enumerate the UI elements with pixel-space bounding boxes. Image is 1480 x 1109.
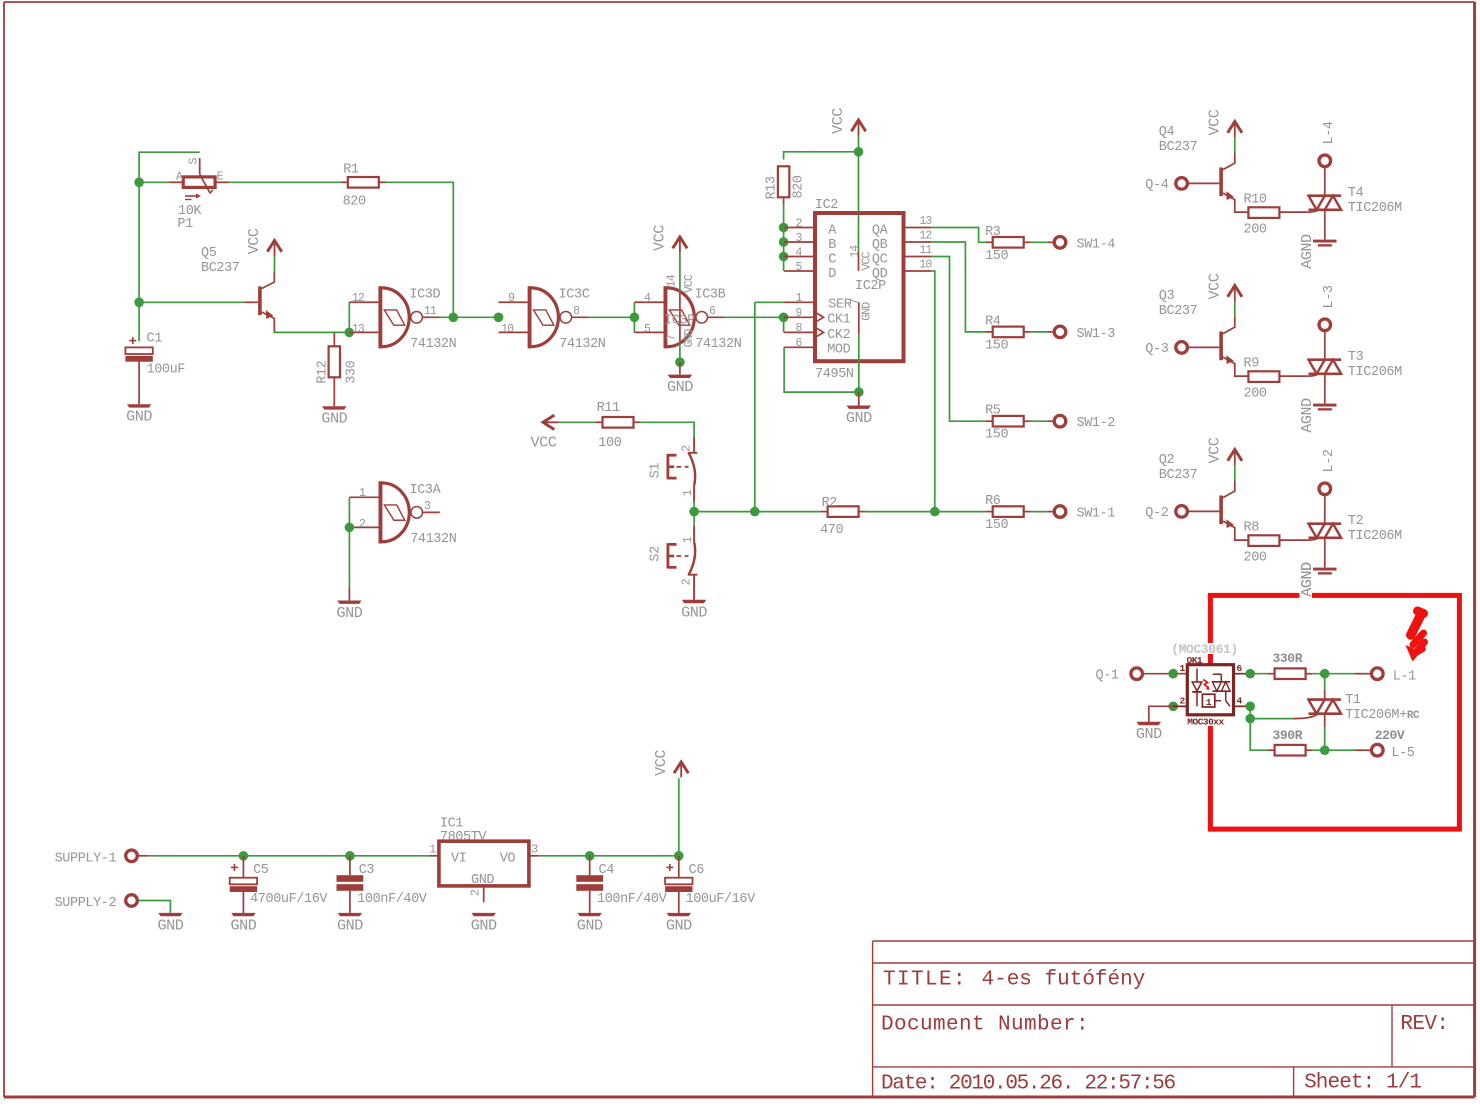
svg-text:A: A xyxy=(828,223,837,238)
svg-text:T1: T1 xyxy=(1345,693,1361,708)
junction xyxy=(1168,669,1178,679)
wire xyxy=(1234,301,1236,316)
connector Q-1 xyxy=(1131,668,1143,680)
svg-text:Q-1: Q-1 xyxy=(1096,669,1119,684)
svg-text:VCC: VCC xyxy=(652,750,670,776)
ground GND xyxy=(337,601,361,604)
connector SW1-3 xyxy=(1054,326,1066,338)
wire IC3P power xyxy=(679,253,681,293)
wire QB to R4 xyxy=(931,242,985,332)
svg-text:GND: GND xyxy=(666,916,692,934)
resistor R12 330 xyxy=(333,332,335,346)
junction xyxy=(345,328,355,338)
ground GND xyxy=(158,913,182,916)
svg-text:7805TV: 7805TV xyxy=(440,830,488,845)
svg-text:R1: R1 xyxy=(343,163,359,178)
svg-text:74132N: 74132N xyxy=(695,337,742,352)
svg-text:GND: GND xyxy=(157,916,183,934)
svg-text:S2: S2 xyxy=(648,546,663,562)
svg-text:3: 3 xyxy=(424,500,431,513)
svg-text:R10: R10 xyxy=(1244,193,1267,208)
wire R13 to A B C D pins xyxy=(783,204,785,271)
power VCC arrow for Q4 xyxy=(1228,122,1242,133)
power VCC arrow supply xyxy=(674,762,688,773)
svg-text:R5: R5 xyxy=(985,404,1001,419)
svg-text:IC3C: IC3C xyxy=(559,288,590,303)
junction xyxy=(345,523,355,533)
svg-text:R11: R11 xyxy=(597,401,620,416)
svg-text:2: 2 xyxy=(681,578,694,585)
resistor R9 200 xyxy=(1248,371,1279,382)
svg-text:GND: GND xyxy=(471,873,494,888)
svg-text:4: 4 xyxy=(1237,696,1243,707)
svg-text:1: 1 xyxy=(359,487,366,500)
ground GND xyxy=(682,600,706,603)
capacitor C4 100nF/40V xyxy=(576,875,603,882)
connector SW1-2 xyxy=(1054,415,1066,427)
svg-text:AGND: AGND xyxy=(1298,562,1316,597)
wire R11 to S1 xyxy=(641,422,694,437)
power VCC arrow for IC2 xyxy=(851,120,865,131)
wire xyxy=(139,181,169,183)
svg-text:74132N: 74132N xyxy=(410,337,457,352)
svg-text:GND: GND xyxy=(683,328,696,347)
capacitor C1 100uF xyxy=(132,337,134,344)
svg-text:200: 200 xyxy=(1244,551,1267,566)
resistor R8 200 xyxy=(1248,535,1279,546)
wire QA to R3 xyxy=(931,228,985,243)
svg-text:GND: GND xyxy=(861,302,874,321)
junction xyxy=(779,313,789,323)
svg-text:2: 2 xyxy=(681,445,694,452)
triac T4 TIC206M xyxy=(1309,194,1342,197)
wire xyxy=(1031,511,1047,513)
svg-text:VCC: VCC xyxy=(861,251,874,270)
svg-text:9: 9 xyxy=(508,292,515,305)
wire S1/S2 node to R2 and R6 xyxy=(694,511,820,513)
svg-text:BC237: BC237 xyxy=(1159,140,1198,155)
ground GND xyxy=(127,404,151,407)
svg-text:L-1: L-1 xyxy=(1393,670,1416,685)
svg-text:GND: GND xyxy=(681,603,707,621)
resistor R4 150 xyxy=(986,331,993,333)
svg-text:VCC: VCC xyxy=(1205,437,1223,463)
svg-text:GND: GND xyxy=(577,916,603,934)
highlight box xyxy=(1210,595,1459,829)
connector SW1-4 xyxy=(1054,237,1066,249)
triac T1 TIC206M xyxy=(1308,698,1341,701)
connector Q-4 xyxy=(1176,178,1188,190)
junction xyxy=(630,313,640,323)
svg-text:T3: T3 xyxy=(1348,350,1364,365)
svg-text:L-2: L-2 xyxy=(1322,449,1337,472)
svg-text:C6: C6 xyxy=(689,863,705,878)
svg-text:Document Number:: Document Number: xyxy=(881,1014,1089,1037)
transistor Q3 BC237 xyxy=(1219,332,1223,361)
svg-text:200: 200 xyxy=(1244,223,1267,238)
svg-text:820: 820 xyxy=(792,175,807,198)
transistor Q2 BC237 xyxy=(1219,496,1223,525)
svg-text:6: 6 xyxy=(795,337,802,350)
resistor R6 150 xyxy=(986,511,993,513)
svg-text:5: 5 xyxy=(795,261,802,274)
wire 390R to L-5 xyxy=(1313,749,1355,751)
lightning symbol xyxy=(1411,611,1425,653)
svg-text:74132N: 74132N xyxy=(559,337,606,352)
analog ground AGND xyxy=(1313,568,1336,571)
svg-text:1: 1 xyxy=(682,536,695,543)
wire xyxy=(274,256,276,271)
wire IC3B out to IC2 clock xyxy=(725,316,784,318)
svg-text:TIC206M: TIC206M xyxy=(1348,201,1402,216)
svg-text:6: 6 xyxy=(1237,663,1243,674)
svg-text:L-4: L-4 xyxy=(1322,121,1337,144)
resistor 390R xyxy=(1267,749,1274,751)
svg-text:S1: S1 xyxy=(648,463,663,479)
connector SUPPLY-2 xyxy=(126,895,138,907)
voltage regulator IC1 7805TV xyxy=(429,855,439,857)
optocoupler OK1 MOC3061 xyxy=(1172,643,1241,654)
transistor Q5 BC237 xyxy=(244,301,258,303)
wire xyxy=(559,421,596,423)
svg-text:L-5: L-5 xyxy=(1391,746,1414,761)
svg-text:4: 4 xyxy=(644,292,651,305)
svg-text:74132N: 74132N xyxy=(410,532,457,547)
svg-text:13: 13 xyxy=(919,215,932,228)
svg-text:4: 4 xyxy=(795,246,802,259)
svg-text:IC2P: IC2P xyxy=(855,279,886,294)
svg-text:7: 7 xyxy=(666,335,679,341)
wire IC3A inputs to ground xyxy=(348,497,350,527)
wire xyxy=(693,501,695,511)
junction xyxy=(1245,714,1255,724)
junction xyxy=(750,507,760,517)
svg-text:C5: C5 xyxy=(253,863,269,878)
svg-text:9: 9 xyxy=(795,307,802,320)
wire QD down to R6 node xyxy=(931,271,935,512)
resistor R5 150 xyxy=(986,420,993,422)
wire Q-1 to OK1 xyxy=(1143,673,1187,675)
capacitor C3 100nF/40V xyxy=(337,875,364,882)
connector L-1 xyxy=(1372,668,1384,680)
svg-text:B: B xyxy=(828,238,836,253)
wire QC to R5 xyxy=(931,257,985,422)
svg-text:1: 1 xyxy=(1206,697,1212,708)
svg-text:Q3: Q3 xyxy=(1159,289,1175,304)
svg-text:TIC206M+RC: TIC206M+RC xyxy=(1345,708,1420,723)
svg-text:11: 11 xyxy=(424,305,437,318)
svg-text:1: 1 xyxy=(795,292,802,305)
svg-text:R13: R13 xyxy=(765,176,780,199)
triac T2 TIC206M xyxy=(1309,522,1342,525)
ground GND xyxy=(472,913,496,916)
svg-text:2: 2 xyxy=(1180,696,1186,707)
svg-text:2: 2 xyxy=(359,518,366,531)
svg-text:S: S xyxy=(188,158,201,165)
svg-text:(MOC3061): (MOC3061) xyxy=(1171,642,1238,657)
svg-text:Q-4: Q-4 xyxy=(1145,178,1168,193)
resistor 330R xyxy=(1267,673,1274,675)
svg-text:R4: R4 xyxy=(985,314,1001,329)
svg-text:150: 150 xyxy=(985,428,1008,443)
svg-text:GND: GND xyxy=(846,409,872,427)
svg-text:VO: VO xyxy=(500,851,516,866)
svg-text:R2: R2 xyxy=(822,496,838,511)
svg-text:IC3B: IC3B xyxy=(695,288,726,303)
svg-text:Date: 2010.05.26. 22:57:56: Date: 2010.05.26. 22:57:56 xyxy=(881,1072,1176,1095)
wire xyxy=(1234,465,1236,480)
svg-text:330: 330 xyxy=(344,360,359,383)
svg-text:6: 6 xyxy=(709,305,716,318)
svg-text:VI: VI xyxy=(451,851,466,866)
svg-text:VCC: VCC xyxy=(531,434,557,452)
capacitor C6 100uF/16V xyxy=(669,864,671,871)
svg-text:3: 3 xyxy=(795,232,802,245)
svg-text:VCC: VCC xyxy=(245,228,263,254)
svg-text:L-3: L-3 xyxy=(1322,285,1337,308)
junction xyxy=(134,178,144,188)
switch S2 xyxy=(693,512,695,526)
transistor Q4 BC237 xyxy=(1219,168,1223,197)
svg-text:IC2: IC2 xyxy=(815,198,838,213)
svg-text:CK1: CK1 xyxy=(827,313,850,328)
wire SUPPLY-2 to GND xyxy=(138,901,170,913)
wire supply rail xyxy=(137,855,148,857)
svg-text:330R: 330R xyxy=(1273,651,1303,666)
IC2 power pin 7 GND xyxy=(858,302,860,334)
svg-text:VCC: VCC xyxy=(683,274,696,293)
svg-text:T2: T2 xyxy=(1348,514,1364,529)
wire xyxy=(1031,241,1047,243)
switch S1 xyxy=(693,437,695,453)
IC2 power pin 14 VCC xyxy=(858,253,860,271)
svg-text:100: 100 xyxy=(598,436,621,451)
shift register IC2 7495N xyxy=(815,213,904,361)
junction xyxy=(854,147,864,157)
svg-text:MOC30xx: MOC30xx xyxy=(1187,717,1224,728)
junction xyxy=(689,507,699,517)
svg-text:R6: R6 xyxy=(985,494,1001,509)
svg-text:TITLE:: TITLE: xyxy=(883,969,967,992)
svg-text:TIC206M: TIC206M xyxy=(1348,365,1402,380)
svg-text:150: 150 xyxy=(985,518,1008,533)
power VCC arrow for Q2 xyxy=(1228,450,1242,461)
wire 330R to L-1 and T1 xyxy=(1313,673,1355,675)
junction xyxy=(1320,745,1330,755)
wire Q5 emitter to R12/IC3D xyxy=(274,331,349,332)
svg-text:P1: P1 xyxy=(177,217,193,232)
svg-text:13: 13 xyxy=(352,323,365,336)
svg-text:R9: R9 xyxy=(1244,357,1260,372)
connector L-2 xyxy=(1319,483,1331,495)
svg-text:AGND: AGND xyxy=(1298,234,1316,269)
power VCC arrow for IC3P xyxy=(673,237,687,248)
connector L-4 xyxy=(1319,155,1331,167)
resistor R11 100 xyxy=(595,421,602,423)
svg-text:AGND: AGND xyxy=(1298,398,1316,433)
svg-text:VCC: VCC xyxy=(1205,109,1223,135)
ground GND xyxy=(322,406,346,409)
wire IC2 GND xyxy=(858,334,860,392)
junction xyxy=(239,851,249,861)
svg-text:12: 12 xyxy=(352,292,365,305)
svg-text:IC3D: IC3D xyxy=(409,288,440,303)
svg-text:SW1-3: SW1-3 xyxy=(1077,327,1116,342)
junction xyxy=(675,357,685,367)
svg-text:QA: QA xyxy=(872,223,889,238)
svg-text:MOD: MOD xyxy=(827,342,850,357)
svg-text:BC237: BC237 xyxy=(201,261,240,276)
svg-text:E: E xyxy=(217,170,224,183)
connector L-5 220V xyxy=(1372,744,1384,756)
svg-text:2: 2 xyxy=(470,889,483,896)
svg-text:100nF/40V: 100nF/40V xyxy=(357,892,428,907)
svg-text:8: 8 xyxy=(795,322,802,335)
ground GND xyxy=(847,406,871,409)
svg-text:820: 820 xyxy=(343,195,366,210)
connector SUPPLY-1 xyxy=(126,850,138,862)
connector L-3 xyxy=(1319,319,1331,331)
svg-text:QB: QB xyxy=(872,238,888,253)
svg-text:220V: 220V xyxy=(1375,728,1405,743)
capacitor C5 4700uF/16V xyxy=(233,864,235,871)
analog ground AGND xyxy=(1313,404,1336,407)
svg-text:QC: QC xyxy=(872,252,888,267)
svg-text:SUPPLY-2: SUPPLY-2 xyxy=(55,896,117,911)
wire SER vertical xyxy=(754,302,756,511)
wire VCC to R13 and IC2 pin14 xyxy=(784,152,859,160)
wire VCC riser xyxy=(678,778,680,856)
svg-text:470: 470 xyxy=(820,523,843,538)
svg-text:100uF/16V: 100uF/16V xyxy=(686,892,757,907)
svg-text:R3: R3 xyxy=(985,225,1001,240)
nand gate IC3D 74132N xyxy=(349,301,378,303)
svg-text:D: D xyxy=(828,267,836,282)
svg-text:C4: C4 xyxy=(599,863,615,878)
svg-text:C3: C3 xyxy=(359,863,375,878)
junction xyxy=(449,313,459,323)
ground GND xyxy=(668,375,692,378)
ground GND xyxy=(1137,722,1161,725)
junction xyxy=(1320,669,1330,679)
wire net C1/base/pot xyxy=(139,152,244,302)
resistor R2 470 xyxy=(820,511,827,513)
svg-text:Q-3: Q-3 xyxy=(1145,342,1168,357)
wire IC3C to IC3B xyxy=(589,316,635,318)
svg-text:VCC: VCC xyxy=(1205,273,1223,299)
svg-text:Q-2: Q-2 xyxy=(1145,506,1168,521)
svg-text:GND: GND xyxy=(471,916,497,934)
svg-text:10: 10 xyxy=(501,323,514,336)
svg-text:SW1-2: SW1-2 xyxy=(1077,416,1116,431)
wire OK1 pin4 to gate and 390R xyxy=(1250,706,1267,750)
svg-text:SUPPLY-1: SUPPLY-1 xyxy=(55,851,117,866)
svg-text:A: A xyxy=(176,170,183,183)
svg-text:SW1-4: SW1-4 xyxy=(1077,237,1116,252)
svg-text:R12: R12 xyxy=(316,360,331,383)
svg-text:1: 1 xyxy=(429,843,436,856)
power VCC arrow left xyxy=(543,415,554,429)
wire OK1 pin6 to 330R xyxy=(1250,673,1267,675)
nand gate IC3C 74132N xyxy=(499,301,528,303)
svg-text:10: 10 xyxy=(919,259,932,272)
resistor R3 150 xyxy=(986,241,993,243)
svg-text:Sheet: 1/1: Sheet: 1/1 xyxy=(1304,1071,1421,1094)
resistor R1 820 xyxy=(341,181,348,183)
svg-text:4700uF/16V: 4700uF/16V xyxy=(250,892,328,907)
svg-text:Q4: Q4 xyxy=(1159,125,1175,140)
svg-text:VCC: VCC xyxy=(829,108,847,134)
svg-text:GND: GND xyxy=(321,410,347,428)
wire xyxy=(1234,137,1236,152)
junction xyxy=(854,387,864,397)
svg-text:GND: GND xyxy=(337,916,363,934)
svg-text:BC237: BC237 xyxy=(1159,304,1198,319)
svg-text:200: 200 xyxy=(1244,387,1267,402)
svg-text:100uF: 100uF xyxy=(147,363,186,378)
triac T3 TIC206M xyxy=(1309,358,1342,361)
svg-text:1: 1 xyxy=(1180,663,1186,674)
resistor R10 200 xyxy=(1248,207,1279,218)
resistor R13 820 xyxy=(778,166,789,197)
svg-text:150: 150 xyxy=(985,338,1008,353)
svg-text:150: 150 xyxy=(985,249,1008,264)
analog ground AGND xyxy=(1313,240,1336,243)
svg-text:VCC: VCC xyxy=(651,225,669,251)
svg-text:R8: R8 xyxy=(1244,521,1260,536)
svg-text:GND: GND xyxy=(667,378,693,396)
svg-text:2: 2 xyxy=(795,217,802,230)
wire pot E to R1 xyxy=(229,181,341,183)
connector SW1-1 xyxy=(1054,506,1066,518)
svg-text:14: 14 xyxy=(666,274,679,287)
svg-text:4-es futófény: 4-es futófény xyxy=(982,969,1146,992)
wire MOD to GND xyxy=(784,347,859,392)
nand gate IC3B 74132N xyxy=(634,301,663,303)
power VCC arrow for Q5 xyxy=(267,240,281,251)
svg-text:390R: 390R xyxy=(1273,728,1303,743)
svg-text:7495N: 7495N xyxy=(815,367,854,382)
svg-text:GND: GND xyxy=(336,604,362,622)
svg-text:SW1-1: SW1-1 xyxy=(1077,507,1116,522)
power VCC arrow for Q3 xyxy=(1228,286,1242,297)
potentiometer P1 10K xyxy=(169,181,183,183)
svg-text:GND: GND xyxy=(230,916,256,934)
wire xyxy=(1031,420,1047,422)
connector Q-3 xyxy=(1176,342,1188,354)
svg-text:BC237: BC237 xyxy=(1159,468,1198,483)
wire OK1 pin2 to GND xyxy=(1149,706,1188,722)
svg-text:TIC206M: TIC206M xyxy=(1348,529,1402,544)
svg-text:12: 12 xyxy=(919,230,932,243)
svg-text:REV:: REV: xyxy=(1400,1013,1448,1036)
wire xyxy=(1031,331,1047,333)
svg-text:5: 5 xyxy=(644,323,651,336)
svg-text:C1: C1 xyxy=(147,332,163,347)
svg-text:IC3A: IC3A xyxy=(410,483,442,498)
svg-text:Q5: Q5 xyxy=(201,246,217,261)
svg-text:Q2: Q2 xyxy=(1159,453,1175,468)
wire R1 to IC3D output node xyxy=(386,182,453,317)
nand gate IC3A 74132N xyxy=(349,496,378,498)
junction xyxy=(1245,669,1255,679)
svg-text:11: 11 xyxy=(919,244,932,257)
junction xyxy=(779,223,789,233)
svg-text:1: 1 xyxy=(682,489,695,496)
connector Q-2 xyxy=(1176,506,1188,518)
svg-text:CK2: CK2 xyxy=(827,328,850,343)
svg-text:100nF/40V: 100nF/40V xyxy=(597,892,668,907)
